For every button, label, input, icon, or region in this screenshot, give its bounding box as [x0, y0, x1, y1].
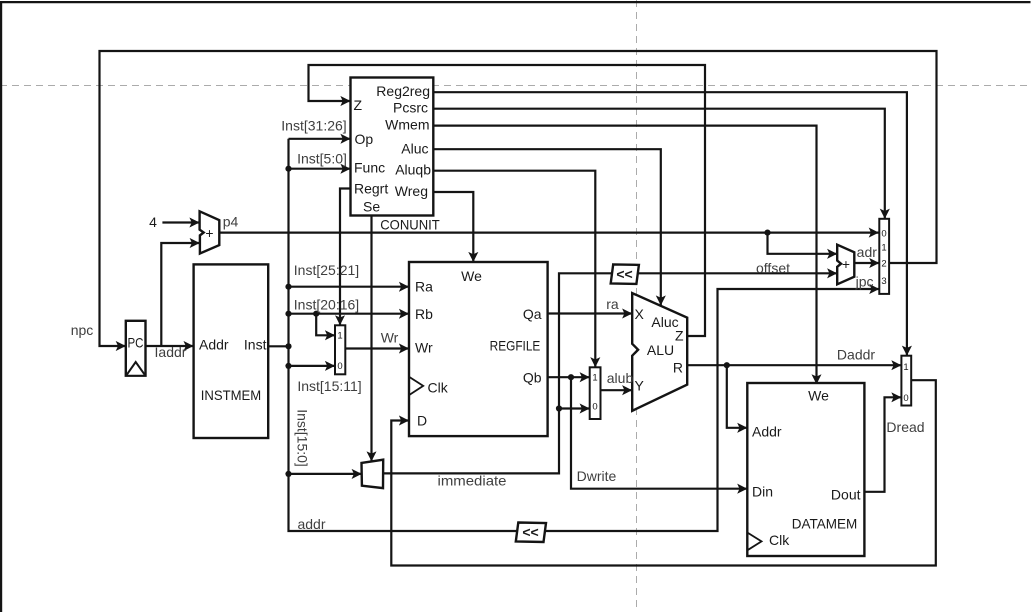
svg-text:Clk: Clk — [428, 380, 449, 396]
svg-text:<<: << — [522, 524, 538, 540]
svg-text:Inst[15:11]: Inst[15:11] — [297, 378, 361, 394]
svg-text:Wr: Wr — [415, 340, 433, 356]
svg-text:We: We — [461, 268, 482, 284]
svg-text:+: + — [842, 256, 850, 272]
svg-text:1: 1 — [881, 243, 886, 254]
svg-text:Func: Func — [354, 160, 385, 176]
svg-text:Aluqb: Aluqb — [395, 162, 431, 178]
svg-text:npc: npc — [71, 322, 94, 338]
svg-text:Wr: Wr — [381, 330, 399, 346]
svg-text:X: X — [635, 306, 645, 322]
svg-text:Z: Z — [675, 328, 684, 344]
svg-text:0: 0 — [592, 402, 597, 413]
svg-text:INSTMEM: INSTMEM — [201, 387, 262, 403]
svg-text:ra: ra — [606, 296, 619, 312]
svg-text:Inst[20:16]: Inst[20:16] — [294, 297, 359, 313]
svg-text:Wreg: Wreg — [395, 183, 428, 199]
svg-text:Clk: Clk — [769, 532, 790, 548]
svg-text:Regrt: Regrt — [354, 181, 388, 197]
svg-text:Dread: Dread — [886, 419, 924, 435]
svg-text:Qa: Qa — [523, 306, 542, 322]
svg-text:CONUNIT: CONUNIT — [380, 217, 440, 233]
svg-text:R: R — [673, 359, 683, 375]
svg-text:Inst[15:0]: Inst[15:0] — [295, 409, 311, 467]
svg-text:Addr: Addr — [752, 424, 782, 440]
svg-text:ALU: ALU — [647, 342, 674, 358]
svg-text:alub: alub — [607, 370, 634, 386]
svg-text:jpc: jpc — [855, 274, 874, 290]
svg-text:0: 0 — [881, 229, 886, 240]
svg-text:PC: PC — [128, 334, 144, 350]
svg-text:3: 3 — [881, 276, 886, 287]
svg-text:Iaddr: Iaddr — [155, 344, 187, 360]
svg-text:Qb: Qb — [523, 370, 542, 386]
svg-text:2: 2 — [881, 259, 886, 270]
svg-text:D: D — [417, 413, 427, 429]
svg-text:Inst: Inst — [244, 337, 267, 353]
svg-text:p4: p4 — [223, 214, 239, 230]
svg-text:Addr: Addr — [199, 337, 229, 353]
svg-text:<<: << — [616, 266, 632, 282]
svg-text:Daddr: Daddr — [837, 346, 875, 362]
svg-text:1: 1 — [337, 331, 342, 342]
svg-text:Dwrite: Dwrite — [577, 468, 617, 484]
svg-text:immediate: immediate — [438, 473, 507, 489]
svg-text:1: 1 — [903, 362, 908, 373]
svg-text:Rb: Rb — [415, 306, 433, 322]
svg-text:Aluc: Aluc — [401, 141, 428, 157]
svg-text:Reg2reg: Reg2reg — [376, 83, 430, 99]
svg-text:Y: Y — [635, 377, 645, 393]
svg-text:Inst[5:0]: Inst[5:0] — [297, 151, 347, 167]
svg-text:Wmem: Wmem — [385, 117, 429, 133]
svg-text:Inst[31:26]: Inst[31:26] — [281, 118, 346, 134]
svg-text:We: We — [808, 387, 829, 403]
svg-text:1: 1 — [592, 373, 597, 384]
svg-text:0: 0 — [903, 393, 908, 404]
svg-text:Dout: Dout — [831, 487, 861, 503]
svg-text:Din: Din — [752, 484, 773, 500]
svg-text:Ra: Ra — [415, 279, 433, 295]
svg-text:Op: Op — [355, 131, 374, 147]
svg-text:REGFILE: REGFILE — [490, 338, 541, 354]
svg-text:4: 4 — [149, 214, 157, 230]
svg-text:addr: addr — [297, 516, 325, 532]
svg-text:Pcsrc: Pcsrc — [393, 100, 428, 116]
svg-text:+: + — [205, 225, 213, 241]
svg-text:0: 0 — [337, 361, 342, 372]
svg-text:Se: Se — [363, 199, 380, 215]
svg-text:DATAMEM: DATAMEM — [792, 516, 858, 532]
svg-text:offset: offset — [756, 260, 790, 276]
svg-text:adr: adr — [857, 244, 878, 260]
svg-text:Inst[25:21]: Inst[25:21] — [294, 262, 359, 278]
svg-text:Z: Z — [354, 97, 363, 113]
